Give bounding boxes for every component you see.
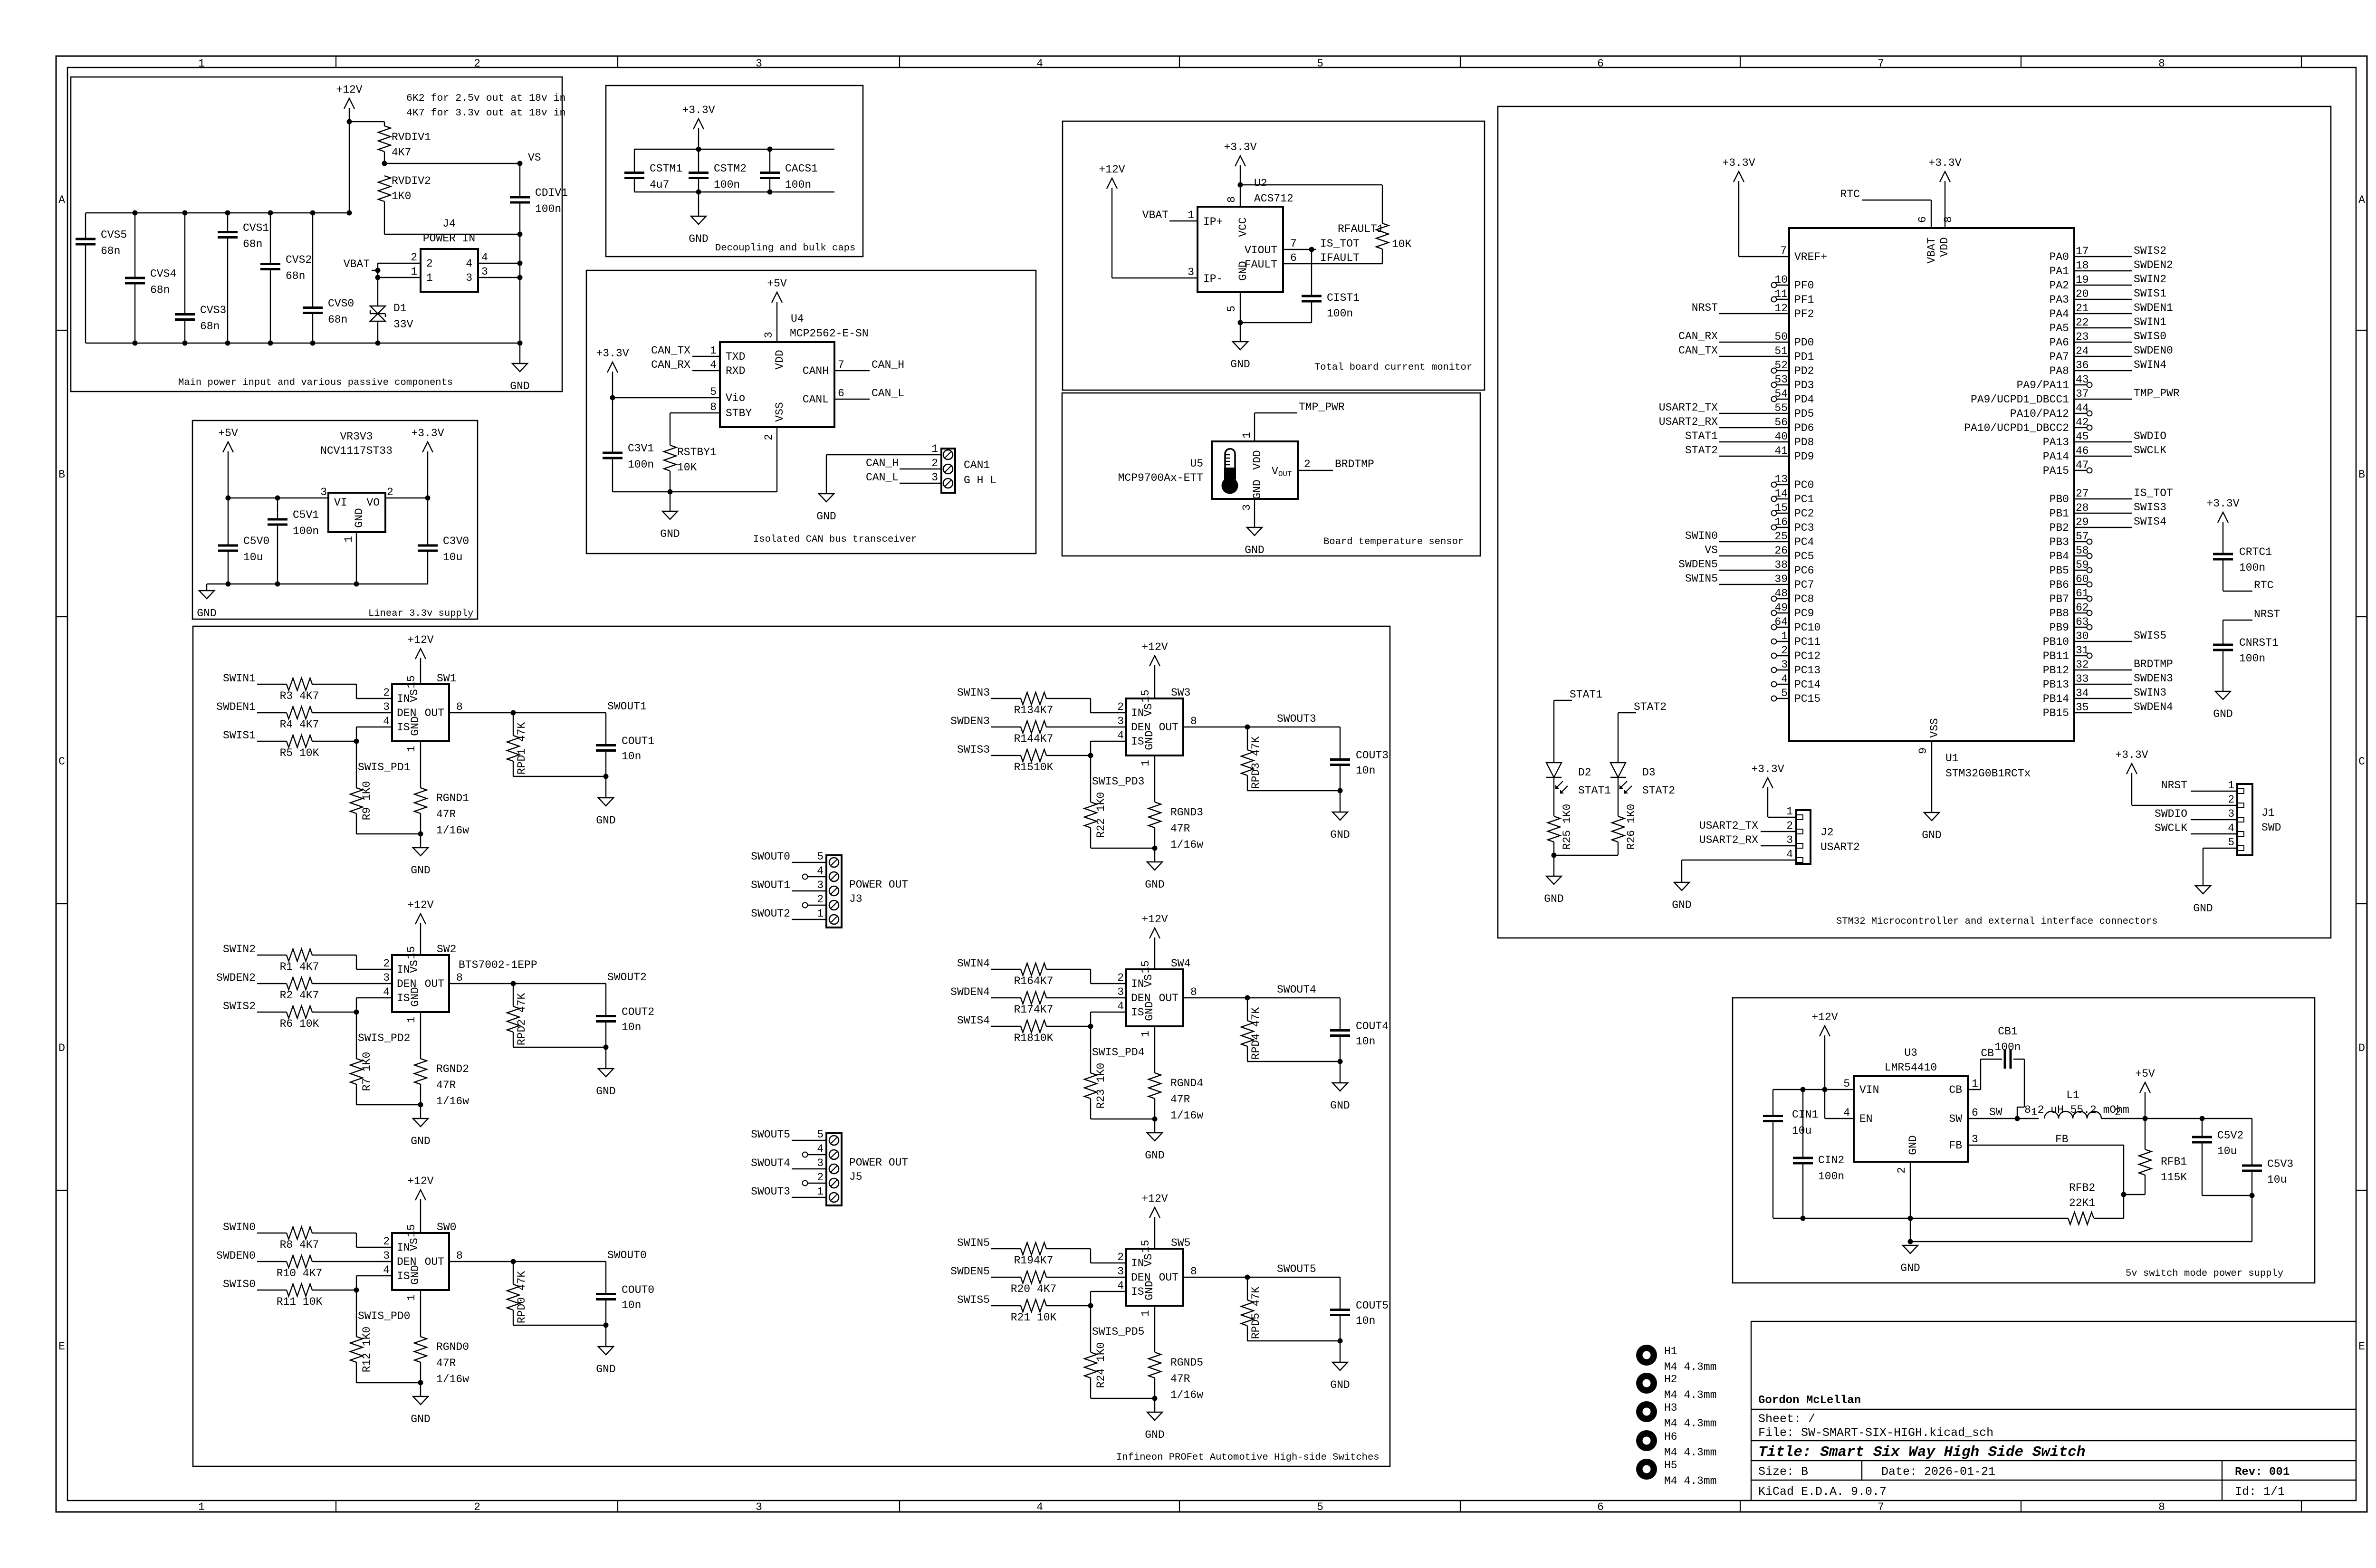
svg-text:GND: GND (1145, 1429, 1164, 1441)
svg-text:U5: U5 (1190, 458, 1203, 470)
svg-text:47: 47 (2076, 459, 2089, 471)
capacitor CVS0 68n (312, 213, 313, 308)
wire RPD to COUT SW0 (513, 1325, 606, 1326)
svg-text:IS_TOT: IS_TOT (1320, 238, 1360, 250)
svg-text:PB1: PB1 (2050, 507, 2069, 520)
pin 3 VI wire (228, 497, 328, 498)
capacitor CSTM2 100n (698, 149, 699, 173)
svg-text:GND: GND (411, 1135, 430, 1147)
pin 29 PB2 wire SWIS4 (2074, 527, 2132, 528)
svg-text:NRST: NRST (1692, 302, 1718, 314)
resistor R19 4K7 (SWIN) (991, 1248, 1021, 1249)
svg-text:15: 15 (405, 946, 418, 959)
capacitor CVS5 68n (85, 213, 86, 239)
svg-text:2: 2 (387, 486, 393, 498)
pin 6 FAULT wire IFAULT (1283, 263, 1382, 264)
svg-text:M4 4.3mm: M4 4.3mm (1664, 1475, 1716, 1487)
mounting hole H5 M4 (1636, 1459, 1657, 1480)
svg-text:SWOUT1: SWOUT1 (607, 700, 647, 713)
svg-text:IS_TOT: IS_TOT (2134, 487, 2173, 499)
svg-text:PC10: PC10 (1794, 621, 1820, 634)
capacitor C5V3 10u (2251, 1119, 2252, 1166)
capacitor CVS1 68n (227, 213, 228, 232)
svg-text:2: 2 (2115, 1106, 2121, 1119)
svg-text:SWDEN1: SWDEN1 (2134, 302, 2173, 314)
svg-text:1/16w: 1/16w (436, 824, 469, 837)
svg-text:GND: GND (1251, 479, 1264, 499)
node RTC bottom (2223, 591, 2252, 592)
svg-text:GND: GND (1143, 1001, 1156, 1021)
svg-text:GND: GND (409, 987, 422, 1006)
svg-text:GND: GND (2213, 708, 2232, 720)
svg-text:SWOUT3: SWOUT3 (751, 1186, 790, 1198)
svg-text:GND: GND (1544, 893, 1563, 905)
svg-text:2: 2 (383, 957, 390, 970)
power +5V CAN (776, 302, 777, 342)
svg-text:PB14: PB14 (2043, 693, 2069, 705)
svg-text:C3V1: C3V1 (628, 442, 654, 455)
svg-text:15: 15 (405, 675, 418, 688)
svg-text:STAT2: STAT2 (1634, 701, 1667, 713)
svg-text:10u: 10u (443, 551, 462, 564)
svg-text:R1 4K7: R1 4K7 (280, 961, 319, 973)
svg-text:FAULT: FAULT (1245, 258, 1277, 271)
svg-text:R25 1K0: R25 1K0 (1561, 804, 1573, 850)
svg-text:1: 1 (405, 1294, 418, 1301)
svg-text:CVS0: CVS0 (328, 297, 354, 310)
svg-text:GND: GND (1907, 1135, 1919, 1155)
svg-text:COUT0: COUT0 (622, 1284, 654, 1296)
pin 10 PF0 no-connect stub (1776, 285, 1789, 286)
ground GND CNRST1 (2215, 691, 2231, 699)
svg-text:GND: GND (197, 607, 216, 620)
resistor R24 1K0 pulldown (1090, 1306, 1091, 1352)
ground GND SW0 (420, 1383, 421, 1396)
svg-text:+12V: +12V (1141, 641, 1168, 653)
svg-text:CACS1: CACS1 (785, 163, 818, 175)
svg-text:7: 7 (838, 359, 844, 371)
pin 6 CANL wire CAN_L (834, 399, 870, 400)
svg-text:RPD5 47K: RPD5 47K (1250, 1287, 1262, 1339)
node RTC top (1862, 200, 1931, 201)
junction SWIS SW2 (354, 1010, 359, 1015)
svg-text:3: 3 (817, 879, 824, 891)
pin 51 PD1 wire CAN_TX (1719, 356, 1789, 357)
resistor RGND0 47R (414, 1337, 427, 1362)
svg-text:PA15: PA15 (2043, 465, 2069, 477)
pin 2 CAN1 wire CAN_H (900, 468, 941, 469)
svg-text:FB: FB (1949, 1139, 1962, 1152)
svg-text:44: 44 (2076, 402, 2089, 414)
svg-text:61: 61 (2076, 587, 2089, 600)
svg-text:J1: J1 (2261, 807, 2275, 819)
svg-text:RFAULT1: RFAULT1 (1338, 223, 1384, 235)
svg-text:GND: GND (1900, 1262, 1920, 1274)
IC U4 MCP2562-E-SN (720, 342, 834, 427)
pin 31 PB11 no-connect stub (2074, 655, 2087, 656)
svg-text:8: 8 (1190, 715, 1197, 727)
svg-text:PF2: PF2 (1794, 308, 1814, 320)
svg-text:PB12: PB12 (2043, 664, 2069, 677)
svg-text:+5V: +5V (2135, 1068, 2155, 1080)
resistor RPD1 47K (513, 713, 514, 736)
svg-text:49: 49 (1774, 602, 1788, 614)
junction top bus corner (347, 210, 352, 216)
svg-text:CB: CB (1949, 1084, 1962, 1096)
svg-text:+3.3V: +3.3V (2206, 497, 2239, 510)
svg-text:PB11: PB11 (2043, 650, 2069, 662)
svg-text:SWDIO: SWDIO (2134, 430, 2166, 442)
svg-text:1: 1 (1140, 760, 1152, 766)
svg-text:R23 1K0: R23 1K0 (1095, 1063, 1107, 1109)
svg-text:H6: H6 (1664, 1431, 1677, 1443)
svg-text:4: 4 (1036, 57, 1043, 70)
ground GND decoupling (698, 192, 699, 216)
svg-text:SWDEN0: SWDEN0 (2134, 344, 2173, 357)
svg-text:RGND5: RGND5 (1170, 1357, 1203, 1369)
svg-text:GND: GND (1330, 1100, 1350, 1112)
svg-text:R8 4K7: R8 4K7 (280, 1239, 319, 1251)
resistor R6 10K (SWIS) (257, 1012, 287, 1013)
section box Isolated CAN bus transceiver (586, 270, 1036, 554)
node NRST right (2223, 620, 2252, 621)
svg-text:3: 3 (1241, 504, 1253, 511)
svg-text:OUT: OUT (1159, 992, 1178, 1004)
mounting hole H3 M4 (1636, 1401, 1657, 1422)
svg-text:CAN_TX: CAN_TX (651, 344, 690, 357)
pin 49 PC9 no-connect stub (1776, 612, 1789, 613)
svg-text:38: 38 (1774, 559, 1788, 571)
svg-text:3: 3 (481, 266, 488, 278)
mounting hole H1 M4 (1636, 1345, 1657, 1366)
svg-text:U3: U3 (1904, 1047, 1917, 1059)
svg-text:Isolated CAN bus transceiver: Isolated CAN bus transceiver (753, 534, 917, 545)
svg-text:1/16w: 1/16w (1170, 839, 1203, 851)
pin 46 PA14 wire SWCLK (2074, 456, 2132, 457)
svg-text:3: 3 (383, 701, 390, 713)
wire VBAT junction (377, 263, 378, 277)
svg-text:SWDEN4: SWDEN4 (2134, 701, 2173, 713)
power +12V IP- (1111, 188, 1112, 278)
svg-text:GND: GND (1145, 1149, 1164, 1162)
svg-text:4: 4 (466, 258, 472, 270)
svg-text:Linear 3.3v supply: Linear 3.3v supply (368, 608, 473, 619)
pin 59 PB5 no-connect stub (2074, 570, 2087, 571)
pin 8 VCC wire (1240, 185, 1241, 207)
svg-text:8: 8 (1190, 986, 1197, 998)
svg-text:SWIN5: SWIN5 (957, 1237, 990, 1249)
svg-text:4: 4 (1117, 1280, 1124, 1292)
pin 30 PB10 wire SWIS5 (2074, 641, 2132, 642)
svg-text:54: 54 (1774, 388, 1788, 400)
svg-text:2: 2 (1786, 820, 1793, 832)
svg-text:CIN2: CIN2 (1818, 1154, 1844, 1166)
svg-text:+3.3V: +3.3V (1751, 763, 1784, 775)
svg-text:100n: 100n (785, 179, 811, 191)
svg-text:PC2: PC2 (1794, 507, 1814, 520)
svg-text:1: 1 (1972, 1078, 1978, 1090)
svg-text:STAT2: STAT2 (1642, 784, 1675, 797)
svg-text:48: 48 (1774, 587, 1788, 600)
svg-text:2: 2 (1304, 458, 1311, 470)
svg-text:SWIN3: SWIN3 (2134, 687, 2166, 699)
pin 1 wire J4 (378, 277, 421, 278)
svg-text:CVS2: CVS2 (286, 254, 312, 266)
svg-text:10K: 10K (677, 461, 697, 474)
svg-text:RTC: RTC (1840, 188, 1860, 201)
pin 25 PC4 wire SWIN0 (1719, 541, 1789, 542)
capacitor COUT1 10n (605, 713, 606, 745)
svg-text:7: 7 (1878, 1501, 1884, 1513)
pin 3 PC13 no-connect stub (1776, 669, 1789, 670)
svg-text:+12V: +12V (407, 1175, 433, 1187)
pin 58 PB4 no-connect stub (2074, 555, 2087, 556)
svg-text:35: 35 (2076, 701, 2089, 714)
svg-text:TMP_PWR: TMP_PWR (1299, 401, 1345, 413)
svg-text:SWIN2: SWIN2 (223, 943, 256, 956)
svg-text:SWDEN2: SWDEN2 (2134, 259, 2173, 271)
svg-text:4: 4 (1036, 1501, 1043, 1513)
svg-text:R20 4K7: R20 4K7 (1011, 1283, 1057, 1295)
svg-text:M4 4.3mm: M4 4.3mm (1664, 1446, 1716, 1459)
svg-text:2: 2 (383, 1235, 390, 1248)
svg-text:5: 5 (1226, 306, 1238, 312)
svg-text:59: 59 (2076, 559, 2089, 571)
IC U3 LMR54410 (1854, 1076, 1968, 1162)
svg-text:CANL: CANL (803, 393, 829, 406)
svg-text:5: 5 (1317, 1501, 1323, 1513)
svg-text:100n: 100n (2239, 562, 2265, 574)
pin 1 GND wire SW2 (420, 1012, 421, 1059)
svg-text:+12V: +12V (1811, 1011, 1838, 1023)
pin 1 CB wire (1968, 1089, 1981, 1090)
svg-text:SWIS4: SWIS4 (2134, 516, 2166, 528)
capacitor COUT4 10n (1340, 998, 1341, 1030)
svg-text:VIOUT: VIOUT (1245, 244, 1277, 257)
svg-text:Sheet: /: Sheet: / (1758, 1412, 1815, 1426)
svg-text:3: 3 (1188, 266, 1194, 278)
junction +12V/RVDIV1 (347, 119, 352, 124)
svg-text:4: 4 (1117, 1000, 1124, 1013)
svg-text:GND: GND (1143, 1281, 1156, 1300)
svg-text:2: 2 (931, 457, 938, 469)
svg-text:3: 3 (756, 1501, 762, 1513)
pin 27 PB0 wire IS_TOT (2074, 498, 2132, 499)
svg-text:SWDIO: SWDIO (2155, 808, 2187, 820)
power +12V SW5 (1154, 1217, 1155, 1249)
IC SW1 PROFet (392, 684, 449, 741)
svg-text:4K7 for 3.3v out at 18v in: 4K7 for 3.3v out at 18v in (406, 107, 565, 119)
pin 6 VBAT wire (1931, 200, 1932, 228)
svg-text:VDD: VDD (1938, 237, 1951, 257)
svg-text:STAT1: STAT1 (1578, 784, 1611, 797)
svg-text:U4: U4 (791, 313, 804, 325)
svg-text:PC8: PC8 (1794, 593, 1814, 605)
svg-text:GND: GND (409, 1265, 422, 1284)
svg-text:RPD4 47K: RPD4 47K (1250, 1007, 1262, 1060)
pin 3 GND wire U5 (1254, 499, 1255, 527)
svg-text:56: 56 (1774, 416, 1788, 429)
pin 28 PB1 wire SWIS3 (2074, 513, 2132, 514)
resistor RGND4 47R (1149, 1073, 1161, 1099)
svg-text:GND: GND (816, 510, 836, 523)
svg-text:20: 20 (2076, 288, 2089, 300)
wire pulldown to GND SW3 (1091, 848, 1155, 849)
svg-text:PB6: PB6 (2050, 579, 2069, 591)
capacitor C5V2 10u (2202, 1119, 2203, 1137)
wire C5V2 C5V3 bus (2202, 1195, 2252, 1196)
svg-text:CAN1: CAN1 (964, 459, 990, 471)
power +3.3V linear (427, 451, 428, 498)
pin 5 GND wire (1240, 292, 1241, 323)
svg-text:6: 6 (1916, 216, 1929, 223)
IC SW4 PROFet (1126, 969, 1183, 1026)
svg-text:6: 6 (1290, 252, 1297, 264)
svg-text:SWOUT2: SWOUT2 (751, 908, 790, 920)
ground GND SW4 (1154, 1119, 1155, 1133)
ground GND COUT2 (605, 1047, 606, 1069)
svg-text:BRDTMP: BRDTMP (1335, 458, 1374, 470)
svg-text:25: 25 (1774, 530, 1788, 543)
svg-text:CDIV1: CDIV1 (535, 187, 568, 199)
pin 50 PD0 wire CAN_RX (1719, 342, 1789, 343)
capacitor CSTM1 4u7 (634, 149, 635, 173)
svg-text:100n: 100n (714, 179, 740, 191)
svg-text:21: 21 (2076, 302, 2089, 315)
resistor RVDIV2 1K0 (378, 176, 391, 201)
svg-text:GND: GND (1237, 261, 1249, 280)
resistor RFAULT1 10K (1376, 223, 1389, 249)
resistor RPD0 47K (513, 1262, 514, 1284)
resistor R15 10K (SWIS) (991, 755, 1021, 756)
pin 5 PC15 no-connect stub (1776, 698, 1789, 699)
svg-text:PC11: PC11 (1794, 636, 1820, 648)
svg-text:8: 8 (2158, 57, 2165, 70)
svg-text:1: 1 (1140, 1031, 1152, 1037)
svg-text:SW2: SW2 (437, 943, 456, 956)
connector J5 POWER OUT (826, 1133, 842, 1205)
svg-text:GND: GND (596, 1363, 615, 1376)
svg-text:13: 13 (1774, 473, 1788, 486)
resistor R1 4K7 (SWIN) (257, 955, 287, 956)
svg-text:STBY: STBY (726, 407, 752, 420)
svg-text:C5V0: C5V0 (243, 535, 269, 547)
svg-text:10u: 10u (1792, 1125, 1811, 1137)
svg-text:SWDEN3: SWDEN3 (950, 715, 990, 727)
svg-text:RVDIV1: RVDIV1 (392, 131, 431, 143)
svg-text:SWIN5: SWIN5 (1685, 573, 1718, 585)
svg-text:PC9: PC9 (1794, 607, 1814, 620)
svg-text:24: 24 (2076, 345, 2089, 357)
svg-text:33: 33 (2076, 673, 2089, 685)
resistor RGND2 47R (414, 1059, 427, 1084)
ground GND SW5 (1154, 1398, 1155, 1412)
svg-text:PB10: PB10 (2043, 636, 2069, 648)
ground GND COUT0 (605, 1325, 606, 1347)
power +3.3V J2 (1767, 787, 1768, 805)
pin 2 wire J4 (378, 263, 421, 264)
svg-text:GND: GND (596, 814, 615, 827)
svg-text:3: 3 (320, 486, 327, 498)
svg-text:2: 2 (1117, 972, 1124, 984)
svg-text:100n: 100n (1818, 1170, 1844, 1183)
svg-text:100n: 100n (535, 203, 561, 215)
wire pulldown to GND SW1 (356, 833, 421, 834)
svg-text:SW3: SW3 (1171, 687, 1190, 699)
svg-text:CB1: CB1 (1998, 1025, 2017, 1038)
resistor R12 1K0 pulldown (356, 1290, 357, 1337)
pin 41 PD9 wire STAT2 (1719, 456, 1789, 457)
svg-text:SWOUT0: SWOUT0 (751, 851, 790, 863)
svg-text:3: 3 (756, 57, 762, 70)
svg-text:R10 4K7: R10 4K7 (277, 1267, 323, 1280)
svg-text:68n: 68n (286, 270, 305, 282)
svg-text:68n: 68n (101, 245, 120, 258)
svg-text:47R: 47R (436, 1079, 456, 1091)
resistor R7 1K0 pulldown (356, 1012, 357, 1059)
svg-text:SW: SW (1989, 1106, 2002, 1119)
svg-text:VS: VS (408, 689, 421, 702)
svg-text:SW1: SW1 (437, 672, 456, 685)
svg-text:41: 41 (1774, 445, 1788, 457)
svg-text:17: 17 (2076, 245, 2089, 258)
svg-text:30: 30 (2076, 630, 2089, 642)
section box Total board current monitor (1063, 121, 1485, 390)
svg-text:M4 4.3mm: M4 4.3mm (1664, 1389, 1716, 1401)
svg-text:CVS3: CVS3 (200, 304, 226, 316)
svg-text:R3 4K7: R3 4K7 (280, 690, 319, 702)
svg-text:PD3: PD3 (1794, 379, 1814, 392)
pin 47 PA15 no-connect stub (2074, 470, 2087, 471)
svg-text:+5V: +5V (218, 427, 238, 440)
svg-text:6: 6 (1597, 57, 1604, 70)
pin 4 EN wire (1824, 1090, 1825, 1119)
power +12V SW0 (420, 1199, 421, 1233)
svg-text:3: 3 (1117, 715, 1124, 727)
wire CAN bottom bus (613, 491, 777, 492)
svg-text:2: 2 (1117, 701, 1124, 713)
svg-text:CIN1: CIN1 (1792, 1109, 1818, 1121)
pin 8 STBY wire (670, 412, 720, 413)
pin 16 PC3 no-connect stub (1776, 527, 1789, 528)
resistor RPD3 47K (1247, 727, 1248, 750)
svg-text:Main power input and various p: Main power input and various passive com… (178, 377, 453, 388)
capacitor C5V1 100n (277, 498, 278, 519)
svg-text:10n: 10n (1356, 1035, 1375, 1048)
pin 1 GND wire SW4 (1154, 1026, 1155, 1073)
svg-text:SWDEN3: SWDEN3 (2134, 672, 2173, 685)
node VS (384, 163, 520, 164)
power +12V SW2 (420, 923, 421, 955)
svg-text:47R: 47R (1170, 1093, 1190, 1106)
IC SW2 PROFet (392, 955, 449, 1012)
svg-text:4: 4 (817, 1143, 824, 1155)
svg-text:22K1: 22K1 (2069, 1197, 2095, 1209)
resistor R13 4K7 (SWIN) (991, 698, 1021, 699)
pin 1 GND wire (356, 532, 357, 584)
border row ticks (56, 330, 67, 331)
pin 45 PA13 wire SWDIO (2074, 441, 2132, 442)
svg-text:D2: D2 (1578, 766, 1591, 779)
resistor RFB2 22K1 (2068, 1212, 2094, 1224)
pin 55 PD5 wire USART2_TX (1719, 413, 1789, 414)
svg-text:RSTBY1: RSTBY1 (677, 446, 717, 459)
svg-text:U2: U2 (1254, 177, 1267, 190)
svg-text:4: 4 (1781, 673, 1788, 685)
svg-text:VIN: VIN (1859, 1084, 1879, 1096)
svg-text:PD9: PD9 (1794, 450, 1814, 463)
capacitor CIN1 10u (1772, 1090, 1773, 1116)
